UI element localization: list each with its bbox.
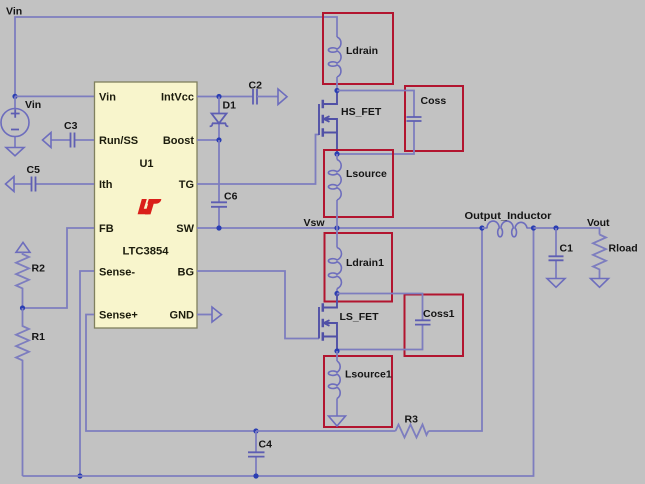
node SW-C6: [216, 225, 221, 230]
capacitor C5: [14, 164, 94, 192]
svg-text:D1: D1: [223, 100, 237, 112]
node LS source: [334, 348, 339, 353]
node Boost: [216, 137, 221, 142]
wire Sense+ run: [86, 315, 256, 432]
svg-text:Coss: Coss: [421, 95, 447, 107]
capacitor Coss: [337, 91, 446, 155]
inductor Ldrain: [328, 37, 378, 77]
ground port (left of C5): [6, 177, 15, 192]
wire Vin to IC pin: [15, 95, 94, 97]
wire Boost: [197, 139, 219, 141]
svg-text:R2: R2: [32, 263, 46, 275]
svg-text:Ldrain1: Ldrain1: [346, 257, 384, 269]
svg-text:FB: FB: [99, 223, 114, 235]
capacitor C3: [51, 120, 94, 148]
wire Vin top rail: [15, 17, 337, 96]
node Sense- bottom junction: [77, 473, 82, 478]
transistor HS_FET: [319, 91, 382, 155]
red box Lsource: [324, 150, 393, 217]
ground port (left of C3): [43, 133, 52, 148]
svg-text:Vin: Vin: [99, 92, 116, 104]
svg-text:Ldrain: Ldrain: [346, 45, 378, 57]
svg-text:C4: C4: [259, 439, 273, 451]
red box Ldrain1: [325, 233, 393, 302]
svg-text:Coss1: Coss1: [423, 308, 455, 320]
node HS drain: [334, 88, 339, 93]
wire Sense- run: [80, 271, 94, 476]
svg-text:TG: TG: [179, 179, 194, 191]
svg-text:SW: SW: [176, 223, 194, 235]
ground (Rload): [591, 279, 609, 288]
svg-text:HS_FET: HS_FET: [341, 106, 382, 118]
svg-text:Rload: Rload: [609, 243, 638, 255]
svg-text:Output_Inductor: Output_Inductor: [465, 210, 552, 222]
red box Coss: [405, 86, 463, 151]
node BG (none) ; port GND pin: [197, 314, 212, 316]
node output inductor right: [531, 225, 536, 230]
svg-text:Ith: Ith: [99, 179, 113, 191]
svg-text:Vin: Vin: [25, 99, 41, 111]
svg-text:C6: C6: [224, 191, 238, 203]
svg-text:R3: R3: [405, 414, 419, 426]
voltage source Vin: [1, 96, 41, 147]
svg-text:C3: C3: [64, 120, 78, 132]
port (right of C2): [278, 89, 287, 105]
resistor Rload: [593, 235, 638, 279]
svg-text:C5: C5: [27, 164, 41, 176]
resistor R3: [396, 414, 429, 438]
svg-text:GND: GND: [170, 310, 195, 322]
port arrow (top of R2): [16, 242, 30, 252]
node Vsw: [334, 225, 339, 230]
svg-text:Lsource1: Lsource1: [345, 369, 392, 381]
svg-text:R1: R1: [32, 331, 46, 343]
svg-text:BG: BG: [178, 266, 195, 278]
node output inductor left: [479, 225, 484, 230]
LT logo: [138, 199, 162, 214]
node LS drain: [334, 291, 339, 296]
capacitor C6: [211, 140, 238, 228]
wire Vout: [534, 228, 600, 235]
wire TG to HS_FET gate: [197, 135, 319, 185]
svg-text:U1: U1: [139, 158, 153, 170]
wire FB to divider: [23, 228, 95, 308]
capacitor C1: [549, 225, 574, 278]
node FB divider junction: [20, 305, 25, 310]
transistor LS_FET: [319, 294, 379, 352]
node HS source: [334, 151, 339, 156]
svg-text:Vsw: Vsw: [304, 217, 326, 229]
ground (C1): [547, 279, 565, 288]
red box Lsource1: [324, 356, 392, 427]
svg-text:Boost: Boost: [163, 135, 195, 147]
inductor Ldrain1: [328, 228, 384, 294]
svg-text:LS_FET: LS_FET: [340, 311, 380, 323]
capacitor C4: [248, 428, 272, 478]
svg-text:Vout: Vout: [587, 217, 610, 229]
svg-text:IntVcc: IntVcc: [161, 92, 194, 104]
capacitor Coss1: [337, 294, 455, 350]
wire BG to LS_FET gate: [197, 271, 319, 339]
svg-text:Lsource: Lsource: [346, 168, 387, 180]
port (GND pin): [212, 307, 222, 322]
inductor Output_Inductor: [465, 210, 552, 237]
svg-text:Vin: Vin: [6, 6, 22, 18]
diode D1: [210, 97, 236, 141]
svg-text:Sense-: Sense-: [99, 266, 135, 278]
wire R3 to inductor left node: [429, 228, 483, 431]
wire SW / Vsw rail: [197, 227, 482, 229]
wire sense filter run to R3: [256, 430, 396, 432]
red box Coss1: [405, 295, 464, 357]
wire bottom return: [23, 228, 534, 476]
svg-text:Run/SS: Run/SS: [99, 135, 138, 147]
svg-text:Sense+: Sense+: [99, 310, 138, 322]
wire Ldrain to drain node: [336, 77, 338, 91]
capacitor C2: [249, 80, 279, 105]
inductor Lsource: [328, 154, 387, 228]
ground (below source): [6, 148, 24, 156]
resistor R1: [16, 308, 45, 476]
op-amp U1 LTC3854 controller body: [95, 82, 198, 328]
ground (Lsource1): [329, 416, 346, 426]
inductor Lsource1: [328, 351, 391, 416]
node IntVcc: [216, 94, 221, 99]
svg-text:LTC3854: LTC3854: [123, 246, 170, 258]
node Vin source tap: [12, 94, 17, 99]
wire IntVcc: [197, 96, 253, 98]
resistor R2: [16, 252, 45, 308]
svg-text:C1: C1: [560, 243, 574, 255]
svg-text:C2: C2: [249, 80, 263, 92]
red box Ldrain: [323, 13, 393, 84]
